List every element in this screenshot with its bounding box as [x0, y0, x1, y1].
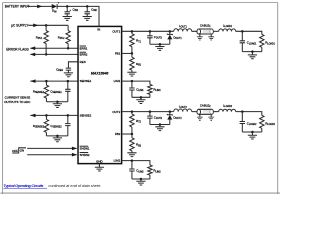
pin FB2 — [115, 132, 121, 136]
capacitor C_RES — [56, 67, 71, 72]
svg-text:+: + — [69, 8, 71, 12]
arrow battery input — [37, 5, 42, 9]
junction FB1 divider — [131, 52, 134, 55]
node ERROR FLAGS label — [6, 48, 29, 52]
junction LIM2 ground — [140, 178, 143, 181]
node BATTERY INPUT label — [5, 5, 30, 9]
capacitor C_IN1 — [65, 6, 79, 16]
junction R_PU1 to ERR2 — [45, 53, 48, 56]
svg-text:ERR2: ERR2 — [80, 53, 88, 57]
wire L_LOAD2 to load — [236, 112, 262, 116]
resistor R_LOAD2 — [260, 115, 276, 132]
wire SENSE1 filter bottom — [46, 101, 67, 103]
junction load2 ground — [251, 131, 254, 134]
wire SENSE2 filter bottom — [46, 135, 67, 137]
pin OUT2 — [112, 110, 120, 114]
junction OUT2 clamp ground — [159, 123, 162, 126]
op-amp U1 MAX16948 body — [78, 26, 122, 163]
pin IN — [97, 27, 100, 31]
wire battery input rail — [27, 5, 52, 7]
wire SENSE1 — [30, 80, 78, 82]
ground OUT1 clamp — [155, 44, 164, 50]
svg-text:FB1: FB1 — [115, 52, 121, 56]
svg-text:SHDN2: SHDN2 — [80, 153, 90, 157]
junction OUT1 clamp ground — [159, 43, 162, 46]
pin ERR1 — [80, 46, 88, 50]
ground IC GND — [95, 164, 104, 171]
wire OUT2 rail — [122, 111, 197, 113]
arrow uC supply — [33, 24, 38, 28]
arrow SHDN2 — [72, 153, 77, 157]
ground C_IN2 — [83, 17, 92, 21]
footer rule — [0, 192, 280, 194]
capacitor C_LOAD2 — [240, 112, 258, 132]
junction C_IN2 — [86, 5, 89, 8]
pin GND — [96, 160, 103, 164]
resistor R_SENSE2 — [33, 115, 49, 136]
diode D_IN — [52, 4, 57, 13]
ground R_B2 — [127, 153, 136, 157]
junction C_SENSE1 — [67, 80, 70, 83]
cable CABLE2 — [197, 104, 214, 115]
inductor L_LOAD1 — [219, 23, 236, 31]
ground LIM2 — [136, 179, 145, 185]
svg-text:LIM2: LIM2 — [114, 159, 121, 163]
wire LIM1 — [122, 81, 150, 84]
resistor R_T1 — [130, 31, 142, 53]
junction R_T1 — [131, 30, 134, 33]
junction SENSE2 ground — [56, 135, 59, 138]
capacitor C_LOAD1 — [240, 31, 258, 51]
diode D_OUT1 zener — [167, 31, 182, 44]
capacitor C_SENSE1 — [50, 81, 70, 102]
capacitor C_LIM1 — [129, 81, 144, 97]
wire load1 bottom — [242, 51, 262, 53]
junction C_OUT1 — [149, 30, 152, 33]
wire battery rail to IN — [57, 6, 99, 26]
wire SHDN1 input — [27, 147, 76, 149]
svg-text:SENSE2: SENSE2 — [80, 114, 92, 118]
junction R_PU1 top — [45, 24, 48, 27]
svg-text:continued at end of data sheet: continued at end of data sheet. — [48, 184, 101, 188]
ground CABLE1 shield left — [197, 34, 203, 40]
pin RES — [80, 60, 86, 64]
ground C_RES — [64, 73, 73, 77]
footer link text — [3, 184, 101, 188]
junction D_OUT1 — [169, 30, 172, 33]
junction D_OUT2 — [169, 110, 172, 113]
junction C_LIM1 — [131, 80, 134, 83]
svg-text:IN: IN — [97, 27, 100, 31]
svg-text:GND: GND — [96, 160, 103, 164]
arrow SENSE2 — [30, 114, 35, 118]
junction R_SENSE1 — [45, 80, 48, 83]
pin ERR2 — [80, 52, 88, 56]
pin FB1 — [115, 52, 121, 56]
inductor L_OUT2 — [174, 104, 192, 111]
cable CABLE1 — [197, 23, 214, 34]
wire LIM2 — [122, 161, 150, 165]
junction C_OUT2 — [149, 110, 152, 113]
arrow ERR2 — [30, 53, 35, 57]
node uC SUPPLY label — [11, 24, 29, 28]
page border right — [277, 3, 279, 195]
ground load1 — [248, 52, 257, 59]
plus polarity C_IN1 — [58, 2, 72, 12]
page border left — [2, 2, 4, 194]
svg-text:ERROR FLAGS: ERROR FLAGS — [6, 48, 29, 52]
svg-text:MAX16948: MAX16948 — [91, 72, 109, 76]
junction C_SENSE2 — [67, 114, 70, 117]
svg-text:BATTERY INPUT: BATTERY INPUT — [5, 5, 30, 9]
svg-text:OUT1: OUT1 — [112, 29, 120, 33]
ground OUT2 clamp — [155, 125, 164, 131]
junction SENSE1 ground — [56, 100, 59, 103]
svg-text:SHDN1: SHDN1 — [80, 147, 90, 151]
pin SHDN1 — [80, 146, 90, 150]
wire LIM2 bottom — [132, 178, 150, 180]
node CURRENT SENSE OUTPUTS TO ADC label — [4, 96, 31, 104]
junction load1 ground — [251, 50, 254, 53]
capacitor C_OUT2 — [147, 112, 163, 125]
resistor R_PU1 — [36, 25, 49, 54]
wire uC supply rail — [28, 24, 68, 26]
junction LIM1 ground — [140, 96, 143, 99]
ground CABLE1 shield right — [208, 34, 214, 40]
ground R_B1 — [127, 72, 136, 76]
junction R_SENSE2 — [45, 114, 48, 117]
wire ERR2 — [30, 53, 78, 55]
node OFF/ON label — [12, 148, 26, 153]
wire FB1 — [122, 52, 132, 54]
wire cable2 to L_LOAD2 — [213, 111, 218, 113]
pin OUT1 — [112, 29, 120, 33]
pin LIM1 — [114, 79, 121, 83]
wire RES pin — [68, 62, 78, 68]
ground CABLE2 shield right — [208, 114, 214, 120]
resistor R_LOAD1 — [260, 34, 276, 51]
wire C_OUT2 D_OUT2 ground bus — [150, 124, 170, 126]
junction C_LOAD2 — [241, 110, 244, 113]
pin LIM2 — [114, 159, 121, 163]
junction C_LOAD1 — [241, 30, 244, 33]
wire FB2 — [122, 133, 132, 135]
wire SENSE2 — [30, 114, 78, 116]
arrow ERR1 — [30, 46, 35, 50]
svg-text:ON: ON — [20, 148, 25, 152]
svg-text:LIM1: LIM1 — [114, 79, 121, 83]
resistor R_B2 — [130, 134, 142, 153]
junction C_LIM2 — [131, 159, 134, 162]
svg-text:ERR1: ERR1 — [80, 46, 88, 50]
wire OUT1 rail — [122, 30, 197, 32]
ground load2 — [248, 132, 257, 139]
diode D_OUT2 zener — [167, 112, 182, 125]
svg-text:RES: RES — [80, 60, 86, 64]
svg-text:SENSE1: SENSE1 — [80, 79, 92, 83]
junction R_T2 — [131, 110, 134, 113]
resistor R_B1 — [130, 53, 142, 72]
wire L_LOAD1 to load — [236, 31, 262, 34]
junction C_IN1 — [66, 5, 69, 8]
svg-text:OUT2: OUT2 — [112, 110, 120, 114]
resistor R_LIM2 — [148, 165, 162, 179]
ground SENSE1 filter — [53, 102, 62, 108]
svg-text:OUTPUTS TO ADC: OUTPUTS TO ADC — [4, 100, 31, 104]
arrow SHDN1 — [72, 147, 77, 151]
pin SHDN2 — [80, 153, 90, 157]
page border top — [3, 2, 278, 4]
wire ERR1 — [30, 47, 78, 49]
svg-text:FB2: FB2 — [115, 132, 121, 136]
ground C_IN1 — [63, 17, 72, 21]
pin SENSE1 — [80, 79, 92, 83]
wire SHDN2 input — [27, 154, 76, 156]
ground CABLE2 shield left — [197, 114, 203, 120]
junction R_PU2 to ERR1 — [67, 47, 70, 50]
capacitor C_LIM2 — [129, 161, 144, 179]
ground LIM1 — [136, 97, 145, 103]
resistor R_T2 — [130, 112, 142, 134]
resistor R_LIM1 — [148, 84, 162, 97]
pin SENSE2 — [80, 114, 92, 118]
wire C_OUT1 D_OUT1 ground bus — [150, 43, 170, 45]
ground SENSE2 filter — [53, 136, 62, 142]
junction FB2 divider — [131, 133, 134, 136]
wire load2 bottom — [242, 131, 262, 133]
capacitor C_OUT1 — [147, 31, 163, 44]
wire LIM1 bottom — [132, 96, 150, 98]
wire cable1 to L_LOAD1 — [213, 30, 218, 32]
svg-text:Typical Operating Circuits: Typical Operating Circuits — [3, 184, 43, 188]
inductor L_OUT1 — [174, 24, 192, 31]
svg-text:µC SUPPLY: µC SUPPLY — [11, 24, 29, 28]
resistor R_PU2 — [58, 25, 71, 48]
capacitor C_IN2 — [85, 6, 98, 16]
inductor L_LOAD2 — [219, 104, 236, 112]
arrow SENSE1 — [30, 79, 35, 83]
resistor R_SENSE1 — [33, 81, 49, 102]
capacitor C_SENSE2 — [50, 115, 70, 136]
